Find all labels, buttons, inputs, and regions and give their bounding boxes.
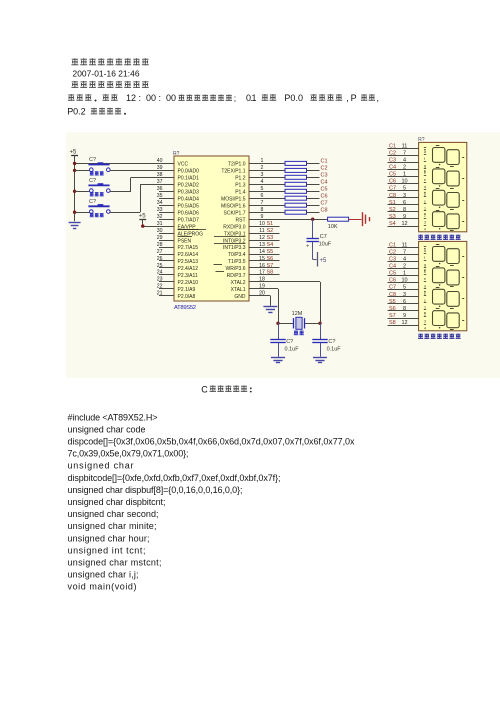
- svg-text:24: 24: [157, 270, 163, 276]
- svg-text:P0.3/AD3: P0.3/AD3: [178, 190, 200, 196]
- microcontroller U1 AT89S52: [174, 156, 249, 301]
- 7-seg digit 1: [433, 148, 445, 163]
- svg-text:40: 40: [157, 158, 163, 164]
- svg-text:f: f: [424, 157, 425, 161]
- svg-text:S5: S5: [389, 299, 396, 305]
- svg-text:S7: S7: [267, 263, 274, 269]
- svg-text:15: 15: [259, 256, 265, 262]
- wire display pin S5: [388, 303, 419, 305]
- svg-text:4: 4: [424, 327, 426, 331]
- svg-text:P0.1/AD1: P0.1/AD1: [178, 176, 200, 182]
- svg-text:C?: C?: [89, 178, 96, 184]
- svg-text:6: 6: [403, 200, 406, 206]
- wire C7 to +5: [312, 242, 314, 260]
- svg-text:2: 2: [403, 165, 406, 171]
- svg-text:P1.3: P1.3: [235, 183, 246, 189]
- display module DS (4-digit 7-seg): [419, 142, 467, 231]
- wire button to chip column: [110, 212, 140, 214]
- svg-text:5: 5: [403, 186, 406, 192]
- node: EA junction: [141, 224, 144, 227]
- svg-text:9: 9: [403, 313, 406, 319]
- svg-text:2: 2: [261, 165, 264, 171]
- wire pin17 right stub: [249, 274, 280, 276]
- svg-text:11: 11: [259, 228, 264, 234]
- svg-text:36: 36: [157, 186, 163, 192]
- svg-text:+5: +5: [320, 258, 328, 264]
- wire pin30 left stub: [159, 233, 174, 235]
- svg-text:13: 13: [259, 242, 265, 248]
- wire pin21 left stub: [159, 295, 174, 297]
- wire pin18 riser: [320, 282, 322, 323]
- svg-text:12: 12: [401, 320, 407, 326]
- wire resistor R4 to net label: [307, 184, 320, 186]
- svg-text:S3: S3: [389, 214, 396, 220]
- wire pin24 left stub: [159, 274, 174, 276]
- svg-text:dispcode[]={0x3f,0x06,0x5b,0x4: dispcode[]={0x3f,0x06,0x5b,0x4f,0x66,0x6…: [68, 437, 356, 447]
- svg-text:C2: C2: [389, 249, 396, 255]
- svg-text:C3: C3: [389, 157, 396, 163]
- svg-text:C6: C6: [389, 278, 396, 284]
- svg-text:10uF: 10uF: [319, 242, 332, 248]
- svg-text:P0.0: P0.0: [284, 93, 303, 103]
- 7-seg digit 4: [433, 212, 445, 227]
- svg-text:3: 3: [261, 172, 264, 178]
- wire pin20 to ground: [270, 296, 272, 306]
- svg-text:SCK/P1.7: SCK/P1.7: [224, 210, 246, 216]
- svg-text:1: 1: [424, 207, 426, 211]
- svg-text:00: 00: [146, 93, 156, 103]
- svg-text:unsigned char: unsigned char: [68, 461, 134, 471]
- svg-text:VCC: VCC: [178, 162, 189, 168]
- svg-text:00: 00: [166, 93, 176, 103]
- capacitor C8 0.1uF (left): [278, 323, 280, 339]
- svg-text:p: p: [424, 291, 426, 295]
- svg-text:dispbitcode[]={0xfe,0xfd,0xfb,: dispbitcode[]={0xfe,0xfd,0xfb,0xf7,0xef,…: [68, 473, 281, 483]
- svg-text:4: 4: [403, 157, 406, 163]
- svg-text:R?: R?: [418, 137, 425, 143]
- svg-text:P0.7/AD7: P0.7/AD7: [178, 217, 200, 223]
- svg-text:C?: C?: [89, 199, 96, 205]
- svg-text:3: 3: [424, 221, 426, 225]
- svg-text:9: 9: [261, 214, 264, 220]
- svg-text:INT1/P3.3: INT1/P3.3: [223, 245, 246, 251]
- svg-text:18: 18: [259, 277, 265, 283]
- svg-text:C1: C1: [389, 242, 396, 248]
- svg-text:11: 11: [402, 242, 408, 248]
- svg-text:c: c: [424, 199, 426, 203]
- svg-text:P2.6/A14: P2.6/A14: [178, 252, 199, 258]
- svg-text:7: 7: [403, 150, 406, 156]
- svg-text:C4: C4: [389, 264, 396, 270]
- svg-text:S2: S2: [267, 228, 274, 234]
- svg-text:C5: C5: [321, 187, 328, 193]
- svg-text:C6: C6: [389, 179, 396, 185]
- wire pin19 riser: [278, 289, 280, 323]
- label 复位键: [90, 192, 94, 196]
- svg-text:6: 6: [261, 193, 264, 199]
- 7-seg digit 1: [433, 247, 445, 262]
- wire pin39 left stub: [111, 170, 174, 172]
- title line 2: [71, 81, 78, 88]
- svg-text:16: 16: [259, 263, 265, 269]
- svg-text:,P: ,P: [346, 93, 357, 103]
- title line 1: [71, 58, 78, 65]
- wire pin13 right stub: [249, 247, 280, 249]
- svg-text:S6: S6: [267, 256, 274, 262]
- svg-text:e: e: [424, 277, 426, 281]
- svg-text:35: 35: [157, 193, 163, 199]
- svg-text:1: 1: [403, 271, 406, 277]
- wire display pin S6: [388, 310, 419, 312]
- node: VCC junction: [73, 162, 76, 165]
- svg-text:P0.2/AD2: P0.2/AD2: [178, 183, 200, 189]
- svg-text:2007-01-16 21:46: 2007-01-16 21:46: [73, 69, 140, 79]
- wire rail to button: [75, 191, 90, 193]
- pushbutton S (复位键): [90, 189, 94, 193]
- svg-text:S3: S3: [267, 235, 274, 241]
- active-low bars: [178, 229, 200, 231]
- wire rail to button: [75, 212, 90, 214]
- svg-text:C: C: [201, 384, 208, 394]
- svg-text:a: a: [424, 249, 426, 253]
- wire riser button2 to pin38: [130, 177, 132, 191]
- svg-text:RXD/P3.0: RXD/P3.0: [223, 224, 245, 230]
- wire pin7 right stub: [249, 205, 285, 207]
- ground (reset, sideways red): [362, 212, 364, 226]
- svg-text:23: 23: [157, 277, 163, 283]
- wire pin22 left stub: [159, 288, 174, 290]
- svg-text:S8: S8: [267, 270, 274, 276]
- wire display pin C3: [388, 261, 419, 263]
- svg-text:+: +: [306, 244, 309, 250]
- svg-text:P2.4/A12: P2.4/A12: [178, 266, 199, 272]
- svg-text:C7: C7: [389, 186, 396, 192]
- svg-text:2: 2: [424, 313, 426, 317]
- wire display pin S2: [388, 211, 419, 213]
- svg-text:P2.5/A13: P2.5/A13: [178, 259, 199, 265]
- wire display pin C3: [388, 162, 419, 164]
- svg-text:2: 2: [424, 214, 426, 218]
- svg-text:5: 5: [261, 186, 264, 192]
- wire C8 to ground: [278, 343, 280, 357]
- svg-text:37: 37: [157, 179, 163, 185]
- svg-text:C7: C7: [389, 285, 396, 291]
- svg-text:XTAL1: XTAL1: [231, 287, 246, 293]
- svg-text:12: 12: [401, 221, 407, 227]
- svg-text:C3: C3: [389, 256, 396, 262]
- svg-text:b: b: [424, 171, 426, 175]
- svg-text:27: 27: [157, 249, 163, 255]
- wire display pin C6: [388, 183, 419, 185]
- wire display pin C6: [388, 282, 419, 284]
- svg-text:2: 2: [403, 264, 406, 270]
- svg-text:31: 31: [157, 221, 163, 227]
- svg-text:4: 4: [424, 228, 426, 232]
- resistor R3: [285, 175, 307, 179]
- svg-text:33: 33: [157, 207, 163, 213]
- svg-text:g: g: [424, 263, 426, 267]
- label 复位键: [90, 171, 94, 175]
- svg-text:17: 17: [259, 270, 265, 276]
- node: crystal left: [276, 322, 279, 325]
- capacitor C7 10uF: [307, 238, 319, 240]
- wire pin10 right stub: [249, 226, 280, 228]
- svg-text:3: 3: [424, 320, 426, 324]
- svg-text:C8: C8: [321, 207, 328, 213]
- svg-text:4: 4: [261, 179, 264, 185]
- svg-text:7c,0x39,0x5e,0x79,0x71,0x00};: 7c,0x39,0x5e,0x79,0x71,0x00};: [68, 449, 189, 459]
- svg-text:0.1uF: 0.1uF: [285, 346, 300, 352]
- svg-text:AT89S52: AT89S52: [174, 305, 196, 311]
- resistor R8: [285, 210, 307, 214]
- svg-text:#include <AT89X52.H>: #include <AT89X52.H>: [68, 412, 158, 422]
- wire riser button3 to pin37: [140, 184, 142, 212]
- wire pin40 left stub: [75, 163, 174, 165]
- wire pin2 right stub: [249, 170, 285, 172]
- wire display pin C5: [388, 176, 419, 178]
- svg-text:10: 10: [401, 179, 407, 185]
- wire display pin C7: [388, 190, 419, 192]
- display module DS (4-digit 7-seg): [419, 241, 467, 330]
- wire pin33 left stub: [159, 212, 174, 214]
- svg-text:8: 8: [403, 306, 406, 312]
- svg-text:C2: C2: [389, 150, 396, 156]
- svg-text:4: 4: [403, 256, 406, 262]
- node: button junction on rail: [73, 169, 76, 172]
- wire pin4 right stub: [249, 184, 285, 186]
- 7-seg digit 3: [433, 289, 445, 304]
- wire pin3 right stub: [249, 177, 285, 179]
- svg-text:unsigned char dispbitcnt;: unsigned char dispbitcnt;: [68, 497, 166, 507]
- wire pin12 right stub: [249, 240, 280, 242]
- ground (right cap): [313, 357, 327, 359]
- wire pin27 left stub: [159, 254, 174, 256]
- svg-text:10K: 10K: [328, 224, 338, 230]
- svg-text:10: 10: [259, 221, 265, 227]
- svg-text:S4: S4: [267, 242, 274, 248]
- wire pin14 right stub: [249, 254, 280, 256]
- svg-text:+5: +5: [70, 150, 78, 156]
- svg-text:C3: C3: [321, 173, 328, 179]
- wire pin18 right stub: [249, 281, 320, 283]
- wire pin20 right stub: [249, 295, 270, 297]
- wire display pin C4: [388, 268, 419, 270]
- svg-text:b: b: [424, 270, 426, 274]
- svg-text:C4: C4: [389, 165, 396, 171]
- label 四位一体数码管: [418, 235, 423, 240]
- wire resistor R8 to net label: [307, 212, 320, 214]
- crystal Y1 12M: [293, 318, 295, 328]
- capacitor C9 0.1uF (right): [320, 323, 322, 339]
- svg-text::: :: [139, 93, 142, 103]
- wire resistor R5 to net label: [307, 191, 320, 193]
- wire pin29 left stub: [159, 240, 174, 242]
- wire display pin C1: [388, 247, 419, 249]
- svg-text:C8: C8: [389, 193, 396, 199]
- 7-seg digit 2: [433, 268, 445, 283]
- svg-text:S7: S7: [389, 313, 396, 319]
- svg-text:C6: C6: [321, 193, 328, 199]
- node: RST junction: [311, 218, 314, 221]
- svg-text:P2.3/A11: P2.3/A11: [178, 273, 198, 279]
- node: button junction on rail: [73, 190, 76, 193]
- wire pin9 right stub: [249, 219, 328, 221]
- svg-text:P2.7/A15: P2.7/A15: [178, 245, 199, 251]
- wire pin8 right stub: [249, 212, 285, 214]
- svg-text:9: 9: [403, 214, 406, 220]
- resistor R6: [285, 196, 307, 200]
- svg-text:C7: C7: [321, 200, 328, 206]
- svg-text:25: 25: [157, 263, 163, 269]
- wire RST down to C7: [312, 219, 314, 238]
- svg-text:c: c: [424, 298, 426, 302]
- wire pin5 right stub: [249, 191, 285, 193]
- svg-text:unsigned char i,j;: unsigned char i,j;: [68, 570, 139, 580]
- schematic sheet background: [66, 132, 500, 378]
- svg-text:7: 7: [261, 200, 264, 206]
- wire display pin C2: [388, 155, 419, 157]
- wire resistor R6 to net label: [307, 198, 320, 200]
- svg-text:d: d: [424, 185, 426, 189]
- svg-text:21: 21: [157, 291, 163, 297]
- wire pin38 left stub: [131, 177, 174, 179]
- svg-text:12: 12: [126, 93, 136, 103]
- node: crystal right: [318, 322, 321, 325]
- svg-text:0.1uF: 0.1uF: [327, 346, 342, 352]
- wire pin11 right stub: [249, 233, 280, 235]
- wire pin34 left stub: [159, 205, 174, 207]
- svg-text:T0/P3.4: T0/P3.4: [228, 252, 246, 258]
- svg-text:P0.5/AD5: P0.5/AD5: [178, 203, 200, 209]
- label 四位一体数码管: [418, 334, 423, 339]
- svg-text:P1.2: P1.2: [235, 176, 246, 182]
- svg-text:XTAL2: XTAL2: [231, 280, 246, 286]
- svg-text:MISO/P1.6: MISO/P1.6: [221, 203, 246, 209]
- svg-text:S1: S1: [389, 200, 396, 206]
- svg-text:a: a: [424, 150, 426, 154]
- wire pin15 right stub: [249, 260, 280, 262]
- svg-text:34: 34: [157, 200, 163, 206]
- svg-text:f: f: [424, 256, 425, 260]
- svg-text:1: 1: [261, 158, 264, 164]
- wire pin1 right stub: [249, 163, 285, 165]
- wire 10K to ground: [349, 219, 362, 221]
- svg-text:C1: C1: [321, 159, 328, 165]
- svg-text:unsigned char dispbuf[8]={0,0,: unsigned char dispbuf[8]={0,0,16,0,0,16,…: [68, 485, 243, 495]
- pushbutton S (复位键): [90, 210, 94, 214]
- svg-text:P0.2: P0.2: [67, 107, 85, 117]
- svg-text:RD/P3.7: RD/P3.7: [227, 273, 246, 279]
- svg-text:P2.0/A8: P2.0/A8: [178, 294, 196, 300]
- svg-text:S8: S8: [389, 320, 396, 326]
- svg-text:MOSI/P1.5: MOSI/P1.5: [221, 196, 246, 202]
- wire resistor R7 to net label: [307, 205, 320, 207]
- svg-text::: :: [159, 93, 162, 103]
- svg-text:22: 22: [157, 284, 163, 290]
- svg-text:P2.2/A10: P2.2/A10: [178, 280, 199, 286]
- wire display pin S7: [388, 318, 419, 320]
- wire pin37 left stub: [140, 184, 174, 186]
- svg-text:P0.6/AD6: P0.6/AD6: [178, 210, 200, 216]
- svg-text:RST: RST: [236, 217, 246, 223]
- svg-text:C1: C1: [389, 143, 396, 149]
- svg-text:;: ;: [234, 93, 236, 103]
- svg-text:C?: C?: [328, 339, 335, 345]
- wire display pin C2: [388, 254, 419, 256]
- wire display pin S8: [388, 325, 419, 327]
- resistor R5: [285, 189, 307, 193]
- wire display pin S1: [388, 204, 419, 206]
- wire display pin C4: [388, 169, 419, 171]
- svg-text:p: p: [424, 192, 426, 196]
- svg-text:12M: 12M: [292, 311, 303, 317]
- svg-text:d: d: [424, 284, 426, 288]
- svg-text:unsigned char code: unsigned char code: [68, 424, 146, 434]
- svg-text:unsigned char minite;: unsigned char minite;: [68, 521, 157, 531]
- svg-text:P2.1/A9: P2.1/A9: [178, 287, 196, 293]
- wire resistor R2 to net label: [307, 170, 320, 172]
- wire pin25 left stub: [159, 267, 174, 269]
- svg-text:S4: S4: [389, 221, 396, 227]
- wire pin19 right stub: [249, 288, 278, 290]
- svg-text:20: 20: [259, 291, 265, 297]
- wire display pin C5: [388, 275, 419, 277]
- svg-text:7: 7: [403, 249, 406, 255]
- svg-text:C5: C5: [389, 271, 396, 277]
- svg-text:PSEN: PSEN: [178, 238, 192, 244]
- wire crystal leads: [278, 323, 294, 325]
- svg-text:8: 8: [403, 207, 406, 213]
- svg-text:unsigned char mstcnt;: unsigned char mstcnt;: [68, 558, 162, 568]
- ground (pin20 GND): [263, 306, 277, 308]
- svg-text:19: 19: [259, 284, 265, 290]
- svg-text:S5: S5: [267, 249, 274, 255]
- svg-text:29: 29: [157, 235, 163, 241]
- svg-text:38: 38: [157, 172, 163, 178]
- svg-text:C5: C5: [389, 172, 396, 178]
- wire display pin S4: [388, 226, 419, 228]
- svg-text:unsigned int tcnt;: unsigned int tcnt;: [68, 545, 146, 555]
- wire pin36 left stub: [159, 191, 174, 193]
- svg-text:28: 28: [157, 242, 163, 248]
- wire rail to button: [75, 170, 90, 172]
- svg-text:12: 12: [259, 235, 265, 241]
- wire pin16 right stub: [249, 267, 280, 269]
- label 晶振: [294, 331, 299, 336]
- svg-text:10: 10: [401, 278, 407, 284]
- svg-text:1: 1: [424, 306, 426, 310]
- wire display pin C8: [388, 197, 419, 199]
- svg-text:T1/P3.5: T1/P3.5: [228, 259, 246, 265]
- svg-text:S6: S6: [389, 306, 396, 312]
- wire display pin C8: [388, 296, 419, 298]
- wire button to chip column: [110, 191, 131, 193]
- ground (bottom of button rail): [69, 222, 81, 224]
- ground (left cap): [271, 357, 285, 359]
- resistor 10K: [328, 217, 349, 221]
- svg-text:3: 3: [403, 292, 406, 298]
- svg-text:T2EX/P1.1: T2EX/P1.1: [221, 169, 245, 175]
- svg-text:C?: C?: [286, 339, 293, 345]
- resistor R1: [285, 161, 307, 165]
- svg-text:1: 1: [403, 172, 406, 178]
- paragraph line 1: [68, 94, 75, 101]
- svg-text:,: ,: [377, 93, 380, 103]
- svg-text:P0.0/AD0: P0.0/AD0: [178, 169, 200, 175]
- svg-text:14: 14: [259, 249, 265, 255]
- svg-text:11: 11: [402, 143, 408, 149]
- wire button to chip column: [110, 170, 174, 172]
